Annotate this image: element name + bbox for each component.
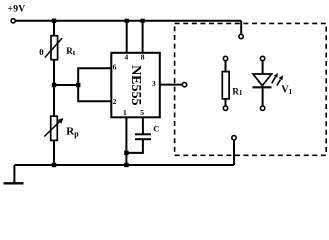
terminal R1 bottom [223, 106, 227, 110]
wire pin 8 to rail [142, 21, 144, 53]
wire top +9V rail [16, 20, 242, 22]
svg-text:6: 6 [113, 63, 117, 72]
junction pin1/capacitor [124, 151, 128, 155]
terminal module signal input [182, 82, 186, 86]
junction rail/Rt [52, 19, 56, 23]
wire pin 1 to ground rail [125, 117, 127, 165]
terminal V1 bottom [260, 106, 264, 110]
wire pin 3 to module signal terminal [160, 84, 183, 86]
svg-text:2: 2 [113, 97, 117, 106]
junction B [76, 83, 80, 87]
wire junction B to pin 2 [78, 85, 111, 101]
wire Rp bottom to ground rail [53, 140, 55, 165]
svg-text:8: 8 [141, 53, 145, 62]
wire junction A to Rp top [53, 85, 55, 116]
terminal module supply input [239, 34, 243, 38]
junction rail/pin1 [124, 163, 128, 167]
wire pin 5 to capacitor [142, 117, 144, 134]
svg-text:V1: V1 [281, 85, 292, 97]
wire R1 top lead [225, 61, 227, 72]
wire capacitor to pin1 lead [126, 139, 142, 153]
svg-text:Rt: Rt [66, 46, 76, 57]
capacitor C [135, 134, 151, 139]
svg-text:θ: θ [39, 47, 44, 57]
svg-text:1: 1 [123, 108, 127, 117]
wire junction A to junction B [54, 84, 78, 86]
terminal module ground [232, 136, 236, 140]
svg-text:R1: R1 [232, 86, 243, 97]
wire R1 bottom lead [225, 99, 227, 106]
svg-text:4: 4 [125, 53, 129, 62]
wire V1 top lead [262, 61, 264, 74]
terminal +9V [11, 19, 15, 23]
wire V1 bottom lead [262, 88, 264, 106]
resistor R1 [222, 72, 229, 99]
wire pin 4 to rail [126, 21, 128, 53]
svg-text:C: C [153, 124, 159, 134]
LED V1 [253, 73, 284, 87]
wire Rt bottom to junction A [53, 60, 55, 85]
svg-text:3: 3 [152, 79, 156, 88]
svg-text:+9V: +9V [8, 5, 26, 15]
wire junction B to pin 6 [78, 68, 111, 85]
op-amp U1 NE555 body [111, 53, 160, 118]
terminal R1 top [223, 56, 227, 60]
junction rail/Rp [52, 163, 56, 167]
wire rail to Rt top [53, 21, 55, 36]
wire rail drop to module supply terminal [240, 21, 242, 34]
terminal V1 top [260, 56, 264, 60]
svg-text:5: 5 [140, 108, 144, 117]
potentiometer Rp [44, 116, 63, 140]
junction rail/pin8 [141, 19, 145, 23]
module dashed enclosure [175, 23, 327, 155]
svg-text:NE555: NE555 [128, 65, 143, 105]
wire ground rail [14, 164, 234, 166]
wire rail to module ground terminal [233, 140, 235, 165]
svg-text:Rp: Rp [66, 126, 79, 139]
junction rail/pin4 [125, 19, 129, 23]
ground [4, 165, 24, 183]
junction A divider tap [52, 83, 56, 87]
thermistor Rt [45, 36, 62, 60]
